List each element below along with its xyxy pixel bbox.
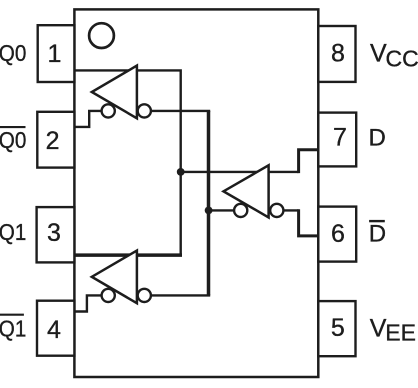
wire: pin4 staircase xyxy=(74,295,101,311)
svg-text:VEE: VEE xyxy=(370,315,416,346)
pin 4 box xyxy=(37,301,74,356)
IC body outline xyxy=(74,9,318,377)
svg-text:Q0: Q0 xyxy=(0,40,26,66)
pin 5 box xyxy=(318,301,355,356)
buffer Q0 inverting input bubble xyxy=(138,104,151,117)
pin 3 box xyxy=(37,207,75,262)
svg-text:1: 1 xyxy=(48,40,62,68)
svg-text:8: 8 xyxy=(331,40,345,68)
buffer Q0 inverted output bubble xyxy=(102,104,115,117)
pin 1 box xyxy=(38,25,75,82)
svg-text:5: 5 xyxy=(331,314,345,342)
wire: complement distribution vertical (thick) xyxy=(207,111,211,296)
wire: Q1 inverting input from distribution xyxy=(144,294,210,296)
receiver inverted output bubble xyxy=(234,204,247,217)
wire: pin3 thick horizontal xyxy=(74,253,182,257)
buffer Q1 inverting input bubble xyxy=(138,289,151,302)
wire: receiver inverted output to distribution xyxy=(209,209,241,211)
pin 1 indicator circle xyxy=(89,23,114,48)
svg-text:4: 4 xyxy=(47,316,61,344)
buffer Q0 triangle xyxy=(92,66,137,119)
junction dot complement line xyxy=(205,207,213,215)
buffer Q1 triangle xyxy=(92,251,137,304)
svg-text:Q1: Q1 xyxy=(0,315,26,341)
junction dot true line xyxy=(177,168,185,176)
pin 8 box xyxy=(318,26,355,82)
wire: receiver true output line to pin7 xyxy=(181,171,299,173)
wire: receiver inverting input to pin6 stub xyxy=(277,209,299,211)
receiver triangle xyxy=(224,165,269,217)
wire: pin2 staircase xyxy=(74,111,101,127)
svg-text:Q0: Q0 xyxy=(0,127,26,153)
svg-text:Q1: Q1 xyxy=(0,219,26,245)
pin 7 box xyxy=(318,113,356,167)
wire: pin7 stub xyxy=(299,150,319,173)
svg-text:3: 3 xyxy=(47,219,61,247)
svg-text:D: D xyxy=(369,220,386,247)
wire: Q0 inverting input from distribution xyxy=(144,110,210,112)
pin 2 box xyxy=(37,112,74,168)
buffer Q1 inverted output bubble xyxy=(102,289,115,302)
svg-text:6: 6 xyxy=(331,220,345,248)
svg-text:7: 7 xyxy=(333,124,347,152)
svg-text:D: D xyxy=(369,125,386,152)
receiver inverting input bubble xyxy=(270,204,283,217)
pin 6 box xyxy=(318,207,356,262)
wire: pin1 to true-distribution vertical xyxy=(74,70,180,255)
svg-text:2: 2 xyxy=(46,127,60,155)
